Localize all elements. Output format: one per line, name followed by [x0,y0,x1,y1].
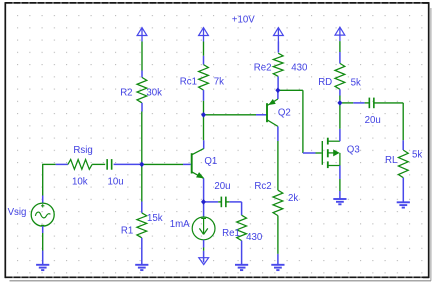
svg-text:RL: RL [385,155,398,166]
svg-text:10k: 10k [72,176,88,187]
svg-text:10u: 10u [108,176,124,187]
svg-text:20u: 20u [365,115,381,126]
svg-text:Re2: Re2 [254,62,272,73]
svg-text:15k: 15k [147,213,163,224]
svg-text:+10V: +10V [232,15,255,26]
svg-text:Rsig: Rsig [73,145,92,156]
svg-text:Q1: Q1 [204,156,217,167]
svg-text:R2: R2 [120,88,132,99]
svg-text:2k: 2k [288,193,298,204]
svg-text:1mA: 1mA [170,219,190,230]
svg-text:430: 430 [246,232,263,243]
svg-text:30k: 30k [146,88,162,99]
svg-text:Rc1: Rc1 [180,76,197,87]
svg-text:Vsig: Vsig [8,207,27,218]
svg-text:430: 430 [291,62,308,73]
svg-text:Q2: Q2 [278,107,291,118]
svg-text:RD: RD [318,77,332,88]
svg-text:R1: R1 [121,226,133,237]
svg-text:5k: 5k [351,78,361,89]
svg-text:7k: 7k [214,76,224,87]
svg-text:20u: 20u [214,181,230,192]
svg-text:5k: 5k [412,150,422,161]
svg-text:Rc2: Rc2 [254,181,271,192]
svg-text:Q3: Q3 [347,145,360,156]
svg-text:Re1: Re1 [222,228,240,239]
